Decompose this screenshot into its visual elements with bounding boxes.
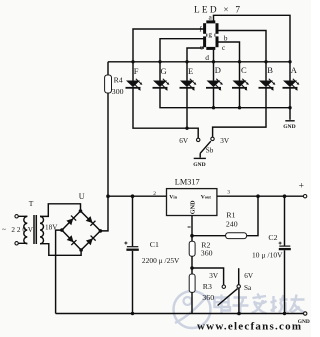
wire: secondary top to bridge bbox=[40, 204, 81, 217]
LED C bbox=[232, 62, 249, 91]
wire segment f to LED F column bbox=[133, 29, 204, 62]
svg-text:b: b bbox=[224, 33, 228, 42]
wire segment d down bbox=[213, 50, 215, 62]
svg-text:10 μ /10V: 10 μ /10V bbox=[252, 250, 283, 259]
resistor R1 240 bbox=[190, 196, 258, 238]
LED D bbox=[206, 62, 223, 91]
watermark logo circle bbox=[174, 291, 211, 328]
svg-text:F: F bbox=[134, 66, 139, 76]
wire: B cathode rail to 3V contact bbox=[213, 88, 266, 137]
svg-text:G: G bbox=[161, 66, 167, 76]
svg-text:3V: 3V bbox=[209, 272, 219, 280]
watermark chinese characters bbox=[215, 294, 306, 315]
wire: E cathode bbox=[186, 88, 188, 128]
wire segment c to LED C column bbox=[218, 42, 240, 62]
switch Sb bbox=[193, 137, 214, 168]
diode bottom-left bbox=[67, 235, 77, 245]
pin label g bbox=[207, 31, 214, 38]
diode bottom-right bbox=[86, 236, 96, 246]
svg-text:3: 3 bbox=[227, 189, 230, 195]
wire segment b to LED B column bbox=[218, 31, 267, 62]
svg-text:R4: R4 bbox=[114, 76, 123, 85]
resistor R4 300 bbox=[105, 62, 124, 196]
svg-text:6V: 6V bbox=[244, 272, 254, 280]
svg-text:~ 220V: ~ 220V bbox=[2, 226, 34, 234]
resistor R3 360 bbox=[189, 268, 214, 314]
LED B bbox=[259, 62, 276, 91]
svg-text:300: 300 bbox=[112, 87, 124, 96]
wire: Vout line to + terminal bbox=[217, 194, 307, 198]
svg-text:360: 360 bbox=[202, 293, 214, 302]
wire: D cathode bbox=[213, 88, 215, 108]
diode top-left bbox=[66, 216, 76, 226]
svg-text:2: 2 bbox=[153, 191, 156, 197]
wire: bridge plus to Vin node bbox=[100, 196, 108, 231]
node: Vin line bbox=[106, 194, 166, 198]
svg-text:C2: C2 bbox=[268, 233, 277, 242]
svg-text:3V: 3V bbox=[220, 137, 230, 145]
svg-text:C1: C1 bbox=[150, 240, 159, 249]
wire: cathode rail of G D C A bbox=[160, 88, 292, 110]
regulator LM317 bbox=[167, 177, 217, 215]
svg-text:T: T bbox=[29, 199, 34, 208]
svg-text:C: C bbox=[241, 65, 247, 75]
svg-text:E: E bbox=[188, 66, 193, 76]
seven-segment display bbox=[205, 22, 217, 49]
svg-text:GND: GND bbox=[190, 200, 197, 214]
LED G bbox=[153, 62, 170, 91]
bridge rectifier U bbox=[60, 209, 102, 252]
svg-text:U: U bbox=[79, 192, 85, 201]
ground under LED A bbox=[283, 121, 295, 130]
wire: C cathode bbox=[239, 88, 241, 108]
wire: bridge minus to ground bus bbox=[56, 230, 62, 313]
svg-text:LM317: LM317 bbox=[175, 177, 200, 186]
wire: secondary bottom to bridge bbox=[40, 244, 81, 256]
svg-text:D: D bbox=[215, 65, 221, 75]
svg-text:g: g bbox=[208, 31, 212, 39]
svg-text:Sa: Sa bbox=[244, 284, 252, 292]
wire: adj node to 3V contact bbox=[192, 268, 224, 285]
svg-text:d: d bbox=[205, 53, 209, 62]
switch Sa bbox=[218, 268, 241, 315]
svg-text:360: 360 bbox=[201, 248, 213, 257]
capacitor C1 bbox=[124, 196, 180, 315]
ground bus bbox=[56, 312, 310, 325]
svg-text:www.elecfans.com: www.elecfans.com bbox=[197, 321, 301, 333]
svg-text:GND: GND bbox=[283, 124, 295, 130]
node: LED anode bus bbox=[108, 60, 292, 63]
svg-text:A: A bbox=[291, 65, 298, 75]
svg-text:+: + bbox=[299, 182, 304, 192]
resistor R2 360 bbox=[189, 236, 212, 270]
svg-text:240: 240 bbox=[226, 220, 238, 229]
wire segment a to LED A column bbox=[214, 15, 291, 62]
wire segment g to LED G column bbox=[160, 39, 204, 62]
wire segment e to LED E column bbox=[187, 48, 204, 62]
svg-text:Sb: Sb bbox=[206, 147, 214, 155]
svg-text:2200 μ /25V: 2200 μ /25V bbox=[142, 256, 180, 265]
wire: F and E cathode rail to 6V contact bbox=[133, 88, 198, 138]
pin number 1 bbox=[188, 226, 191, 228]
transformer T bbox=[15, 215, 44, 245]
LED E bbox=[180, 62, 197, 91]
svg-text:GND: GND bbox=[298, 319, 310, 325]
svg-text:B: B bbox=[267, 65, 273, 75]
svg-text:6V: 6V bbox=[179, 137, 189, 145]
wire: A cathode to ground bbox=[289, 88, 291, 120]
LED A bbox=[283, 62, 300, 91]
LED F bbox=[126, 62, 143, 91]
wire: LM317 adj pin bbox=[191, 216, 193, 236]
diode top-right bbox=[86, 216, 96, 226]
svg-text:R3: R3 bbox=[203, 282, 212, 291]
capacitor C2 bbox=[252, 196, 291, 315]
svg-text:R1: R1 bbox=[226, 211, 235, 220]
svg-text:GND: GND bbox=[193, 162, 205, 168]
